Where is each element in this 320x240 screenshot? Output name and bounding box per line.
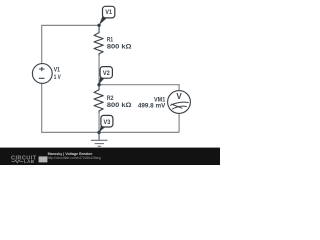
svg-text:800 kΩ: 800 kΩ — [107, 103, 132, 109]
wire middle vertical between R2 and node V3 — [98, 113, 100, 133]
wire bottom horizontal — [42, 131, 179, 133]
junction node V3 — [97, 131, 100, 134]
resistor R2 — [94, 85, 103, 113]
ground — [91, 132, 108, 146]
svg-text:V2: V2 — [103, 71, 110, 77]
node flag V3 — [99, 115, 113, 132]
resistor R1 — [94, 25, 103, 55]
svg-text:1 V: 1 V — [54, 75, 61, 81]
svg-text:V1: V1 — [105, 10, 112, 16]
wire top horizontal — [42, 24, 99, 26]
footer — [0, 148, 220, 165]
footer text — [48, 151, 101, 160]
svg-text:R1: R1 — [107, 37, 114, 43]
svg-text:V: V — [176, 92, 182, 101]
voltmeter VM1 — [168, 91, 191, 114]
wire middle vertical between R1 and node V2 — [98, 56, 100, 85]
voltage source V1 — [32, 64, 52, 84]
svg-text:V3: V3 — [104, 120, 111, 126]
junction node V2 — [97, 83, 100, 86]
svg-text:http://circuitlab.com/c472c5b4: http://circuitlab.com/c472c5b428arg — [48, 155, 101, 160]
value label R2 800 kΩ — [107, 96, 132, 109]
value label VM1 499.8 mV — [138, 97, 166, 109]
svg-text:V1: V1 — [54, 67, 61, 73]
value label R1 800 kΩ — [107, 37, 132, 50]
node flag V2 — [99, 67, 113, 85]
value label V1 1 V — [54, 67, 61, 81]
svg-text:VM1: VM1 — [154, 97, 166, 103]
svg-text:499.8 mV: 499.8 mV — [138, 104, 165, 110]
svg-text:800 kΩ: 800 kΩ — [107, 45, 132, 51]
wire right vertical voltmeter top lead — [178, 84, 180, 91]
wire right vertical voltmeter bottom lead — [178, 113, 180, 132]
wire middle horizontal to voltmeter — [99, 84, 179, 86]
svg-text:R2: R2 — [107, 96, 114, 102]
wire left vertical upper — [41, 25, 43, 64]
junction node V1 — [97, 24, 100, 27]
node flag V1 — [99, 6, 115, 25]
svg-text:LAB: LAB — [24, 159, 35, 164]
wire left vertical lower — [41, 83, 43, 133]
